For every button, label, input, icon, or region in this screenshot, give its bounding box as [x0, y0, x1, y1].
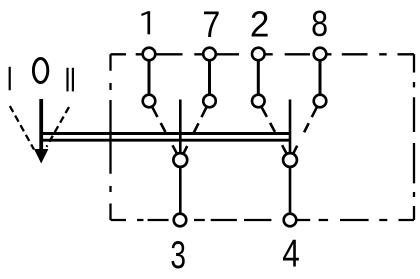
- svg-text:8: 8: [311, 4, 328, 44]
- svg-text:3: 3: [170, 234, 186, 278]
- svg-text:7: 7: [202, 4, 220, 46]
- svg-text:4: 4: [282, 233, 300, 276]
- svg-text:2: 2: [250, 4, 270, 45]
